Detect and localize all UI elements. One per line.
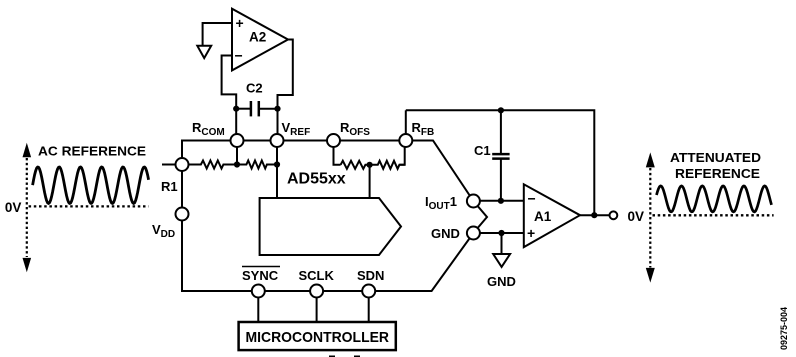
- feedback top rail: [406, 110, 595, 215]
- pin SYNC: [252, 285, 265, 298]
- pin SCLK: [310, 285, 323, 298]
- capacitor C1: [492, 110, 509, 201]
- pin RFB: [399, 134, 412, 147]
- wire stub into R1 pin: [162, 164, 176, 166]
- ground (A2 + input): [197, 46, 211, 58]
- svg-text:REFERENCE: REFERENCE: [675, 166, 760, 181]
- pin VREF: [271, 134, 284, 147]
- node C1 top (junction dot): [498, 107, 504, 113]
- wire C2 right node to VREF pin: [277, 109, 279, 141]
- AC reference dashed axis arrow: [23, 143, 32, 273]
- wire A1 output: [579, 214, 610, 216]
- node C2 right (junction dot): [274, 106, 280, 112]
- AC reference sine waveform: [33, 167, 149, 204]
- svg-text:C1: C1: [474, 143, 491, 158]
- wire IOUT1 to A1 inverting input: [480, 200, 524, 202]
- pin VDD: [176, 208, 189, 221]
- wire RCOM pin to node: [236, 141, 238, 165]
- label SYNC with overline: [242, 267, 280, 284]
- svg-text:+: +: [236, 15, 244, 31]
- wire to ground symbol: [501, 233, 503, 254]
- svg-text:SCLK: SCLK: [299, 268, 335, 283]
- svg-text:GND: GND: [487, 274, 516, 289]
- DAC ladder pentagon: [260, 198, 401, 255]
- wire GND pin to A1 noninverting input: [480, 232, 524, 234]
- svg-text:−: −: [528, 190, 536, 206]
- node below RCOM (junction dot): [234, 161, 240, 167]
- resistor (ROFS to center node): [341, 161, 370, 169]
- svg-text:A1: A1: [534, 209, 552, 224]
- attenuated sine waveform: [657, 186, 772, 212]
- attenuated reference dashed axis arrow: [646, 152, 655, 282]
- wire A2 inverting input to C2 left node: [222, 56, 237, 109]
- wire VREF pin through node to DAC ladder: [276, 141, 278, 199]
- node GND wire (junction dot): [498, 230, 504, 236]
- node below VREF (junction dot): [274, 161, 280, 167]
- svg-text:−: −: [235, 47, 243, 63]
- pin R1: [176, 158, 189, 171]
- wire center node to DAC ladder: [369, 165, 371, 198]
- AD55xx chip outline: [182, 141, 487, 292]
- svg-text:SDN: SDN: [357, 268, 384, 283]
- pin ROFS: [327, 134, 340, 147]
- op-amp A2: [232, 9, 288, 71]
- resistor (center node to RFB): [370, 161, 405, 169]
- pin SDN: [362, 285, 375, 298]
- svg-text:09275-004: 09275-004: [779, 306, 790, 350]
- op-amp A1: [524, 184, 580, 247]
- caption fragment below microcontroller: [329, 356, 335, 357]
- svg-text:AC REFERENCE: AC REFERENCE: [38, 144, 146, 159]
- output terminal: [610, 211, 618, 219]
- attenuated zero baseline (dotted): [653, 214, 774, 216]
- wire A2 noninverting input to ground: [203, 23, 232, 45]
- svg-text:ATTENUATED: ATTENUATED: [670, 150, 761, 165]
- svg-text:+: +: [527, 225, 535, 241]
- wire ROFS pin down: [334, 141, 341, 165]
- svg-text:AD55xx: AD55xx: [287, 171, 346, 188]
- svg-text:R1: R1: [161, 179, 178, 194]
- node between ROFS and RFB (junction dot): [367, 162, 373, 168]
- svg-text:0V: 0V: [628, 209, 645, 224]
- wire microcontroller SDN: [368, 298, 370, 323]
- ground (A1 + input): [493, 254, 510, 267]
- wire up to RFB pin: [399, 141, 404, 165]
- resistor (RCOM node to VREF node): [237, 161, 277, 169]
- pin IOUT1: [467, 195, 480, 208]
- node A1 output (junction dot): [591, 212, 597, 218]
- node C2 left (junction dot): [233, 106, 239, 112]
- wire C2 left node to RCOM pin: [235, 109, 237, 141]
- capacitor C2: [236, 101, 277, 116]
- svg-text:SYNC: SYNC: [242, 268, 279, 283]
- svg-text:C2: C2: [246, 81, 263, 96]
- AC reference zero baseline (dotted): [29, 205, 149, 207]
- node C1 bottom (junction dot): [498, 198, 504, 204]
- wire RFB to feedback top rail: [405, 110, 407, 134]
- wire A2 output to C2 right node: [278, 40, 293, 109]
- wire microcontroller SYNC: [257, 298, 259, 323]
- pin RCOM: [231, 134, 244, 147]
- svg-text:MICROCONTROLLER: MICROCONTROLLER: [246, 329, 390, 346]
- wire microcontroller SCLK: [316, 298, 318, 323]
- svg-text:0V: 0V: [5, 200, 22, 215]
- microcontroller box: [239, 322, 396, 350]
- svg-text:GND: GND: [431, 226, 460, 241]
- svg-text:A2: A2: [249, 30, 266, 45]
- resistor (R1 to RCOM node): [189, 161, 238, 169]
- pin GND: [467, 227, 480, 240]
